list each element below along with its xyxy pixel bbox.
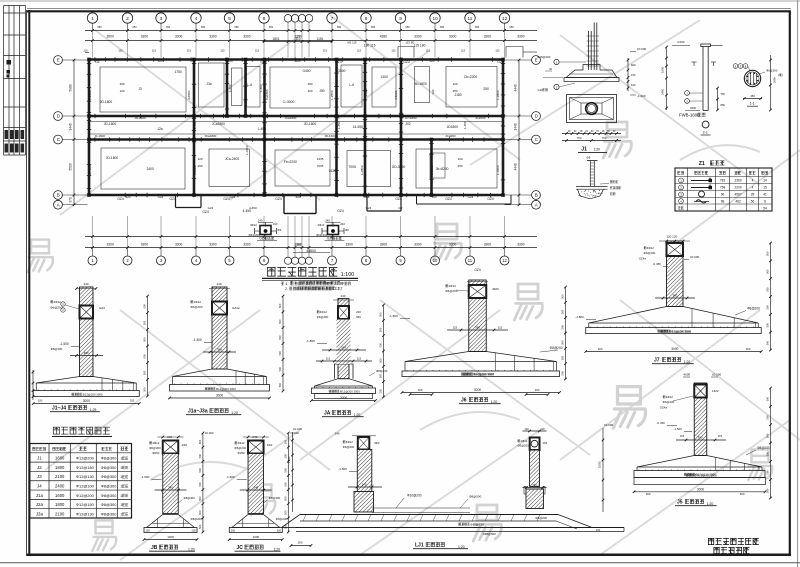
svg-text:-1.800: -1.800	[306, 339, 315, 343]
svg-text:1600: 1600	[55, 456, 65, 461]
svg-text:115: 115	[187, 49, 192, 53]
svg-text:500: 500	[198, 468, 202, 473]
svg-text:500: 500	[198, 482, 202, 487]
svg-text:650: 650	[132, 26, 137, 29]
svg-text:-1.500: -1.500	[141, 475, 150, 479]
svg-text:650: 650	[166, 26, 171, 29]
svg-text:115: 115	[391, 49, 396, 53]
svg-text:3000: 3000	[216, 394, 223, 398]
svg-text:1750: 1750	[174, 70, 182, 74]
svg-text:3300: 3300	[345, 243, 353, 247]
svg-text:Jb=8200: Jb=8200	[436, 167, 449, 171]
svg-text:3300: 3300	[106, 243, 114, 247]
svg-text:300: 300	[535, 388, 540, 392]
svg-text:120: 120	[431, 89, 435, 94]
svg-text:1-300: 1-300	[259, 84, 263, 92]
svg-text:624: 624	[296, 195, 301, 199]
svg-text:115: 115	[718, 434, 723, 438]
svg-text:4Φ12: 4Φ12	[317, 223, 324, 227]
svg-text:1600: 1600	[661, 66, 665, 73]
svg-text:100: 100	[130, 399, 135, 403]
svg-text:G24: G24	[366, 206, 372, 210]
svg-text:240: 240	[341, 346, 346, 350]
svg-text:500: 500	[284, 496, 288, 501]
svg-text:J3: J3	[37, 474, 42, 479]
svg-text:4600: 4600	[492, 287, 499, 291]
svg-text:100: 100	[631, 83, 636, 87]
svg-text:650: 650	[337, 26, 342, 29]
svg-text:300: 300	[598, 347, 603, 351]
svg-text:1402: 1402	[712, 389, 719, 393]
svg-text:500: 500	[278, 382, 282, 387]
svg-text:500: 500	[766, 322, 770, 327]
svg-text:J2a: J2a	[157, 127, 162, 131]
svg-text:650: 650	[371, 26, 376, 29]
svg-text:240: 240	[335, 432, 340, 436]
svg-text:GZ: GZ	[95, 60, 100, 64]
svg-text:115: 115	[326, 357, 331, 361]
svg-text:115: 115	[426, 49, 431, 53]
svg-text:110: 110	[295, 37, 300, 41]
svg-text:Φ250: Φ250	[152, 451, 160, 455]
svg-text:GZ4: GZ4	[275, 197, 282, 201]
svg-text:M=1800: M=1800	[415, 82, 427, 86]
svg-text:Φ12@130: Φ12@130	[76, 511, 95, 516]
svg-text:360: 360	[84, 351, 89, 355]
svg-text:650: 650	[509, 26, 514, 29]
svg-text:A: A	[57, 202, 60, 207]
svg-text:Φ8@500: Φ8@500	[469, 495, 481, 499]
svg-text:624: 624	[126, 195, 131, 199]
svg-text:624: 624	[228, 59, 233, 63]
svg-text:-1.500: -1.500	[674, 427, 683, 431]
svg-text:JB: JB	[151, 545, 158, 551]
svg-text:Φ8@300: Φ8@300	[101, 474, 118, 479]
svg-text:GD-3600: GD-3600	[392, 165, 406, 169]
svg-text:4: 4	[752, 186, 754, 190]
svg-text:9: 9	[399, 16, 402, 21]
svg-text:500: 500	[766, 396, 770, 401]
svg-text:4Φ12: 4Φ12	[346, 440, 354, 444]
svg-text:Φ10@200: Φ10@200	[407, 494, 422, 498]
svg-text:Φ6@200: Φ6@200	[50, 306, 62, 310]
svg-text:1801: 1801	[273, 37, 280, 41]
svg-text:GZ4: GZ4	[169, 197, 176, 201]
svg-text:500: 500	[379, 389, 383, 394]
svg-text:1-2800: 1-2800	[496, 90, 500, 100]
svg-text:3300: 3300	[243, 35, 251, 39]
svg-text:4Φ2: 4Φ2	[374, 441, 380, 445]
svg-text:240: 240	[532, 483, 537, 487]
svg-text:3000: 3000	[83, 399, 90, 403]
svg-text:Φ8@300: Φ8@300	[101, 456, 118, 461]
svg-text:500: 500	[278, 303, 282, 308]
svg-text:4Φ2: 4Φ2	[267, 443, 273, 447]
svg-text:96: 96	[721, 193, 725, 197]
svg-text:Φ12@200 3000: Φ12@200 3000	[340, 389, 360, 393]
svg-text:1: 1	[120, 484, 122, 488]
svg-text:G24: G24	[208, 206, 214, 210]
svg-text:3000: 3000	[697, 487, 704, 491]
svg-text:Φ6@200: Φ6@200	[234, 446, 246, 450]
svg-text:Φ8@200: Φ8@200	[51, 347, 63, 351]
svg-text:4Φ12: 4Φ12	[238, 441, 246, 445]
svg-text:GZ4a: GZ4a	[639, 257, 647, 261]
svg-text:±0.000: ±0.000	[290, 431, 299, 435]
svg-text:2400: 2400	[661, 88, 665, 95]
svg-text:J3: J3	[138, 87, 142, 91]
svg-text:115 180: 115 180	[414, 44, 426, 48]
svg-text:2200: 2200	[735, 186, 742, 190]
svg-text:500: 500	[284, 510, 288, 515]
svg-text:Φ12@100 3000: Φ12@100 3000	[669, 329, 691, 333]
svg-text:L7.2: L7.2	[336, 287, 343, 291]
svg-text:54: 54	[763, 206, 767, 210]
svg-text:Φ12@200: Φ12@200	[76, 493, 95, 498]
svg-text:Φ8@200: Φ8@200	[535, 516, 547, 520]
svg-text:56: 56	[751, 199, 755, 203]
svg-text:500: 500	[766, 287, 770, 292]
svg-text:-1.800: -1.800	[575, 315, 584, 319]
svg-text:650: 650	[405, 26, 410, 29]
svg-text:500: 500	[561, 294, 565, 299]
svg-text:650: 650	[440, 26, 445, 29]
svg-text:4-450: 4-450	[249, 206, 257, 210]
svg-text:Φ12@200 3000: Φ12@200 3000	[83, 392, 103, 396]
svg-text:G24: G24	[468, 195, 474, 199]
svg-text:Φ8@300: Φ8@300	[101, 502, 118, 507]
svg-text:1: 1	[120, 503, 122, 507]
svg-text:Φ250: Φ250	[238, 451, 246, 455]
svg-text:C=3000: C=3000	[283, 100, 295, 104]
svg-text:-1.500: -1.500	[338, 467, 347, 471]
svg-text:FWB-1600: FWB-1600	[679, 113, 700, 118]
svg-text:1: 1	[120, 475, 122, 479]
svg-text:115 M2: 115 M2	[405, 41, 415, 45]
svg-text:±0.000: ±0.000	[604, 423, 613, 427]
svg-text:J50: J50	[319, 89, 324, 93]
svg-text:12: 12	[502, 258, 507, 263]
svg-text:300: 300	[746, 347, 751, 351]
svg-text:J3a: J3a	[206, 82, 211, 86]
svg-text:4Φ12: 4Φ12	[54, 300, 62, 304]
svg-text:JD-1600: JD-1600	[134, 116, 146, 120]
svg-text:4380: 4380	[380, 35, 388, 39]
svg-text:-0.450: -0.450	[653, 262, 662, 266]
svg-text:2.: 2.	[294, 287, 297, 291]
svg-text:240: 240	[254, 486, 259, 490]
svg-text:GZ3: GZ3	[335, 60, 342, 64]
svg-text:120: 120	[540, 427, 545, 431]
svg-text:360: 360	[672, 294, 677, 298]
svg-text:3300: 3300	[484, 243, 492, 247]
svg-text:4: 4	[752, 179, 754, 183]
svg-text:115: 115	[323, 49, 328, 53]
svg-text:500: 500	[561, 309, 565, 314]
svg-text:Φ6: Φ6	[277, 228, 281, 232]
svg-text:3300: 3300	[517, 35, 525, 39]
svg-text:-1.500: -1.500	[226, 475, 235, 479]
svg-text::1.: :1.	[285, 282, 289, 286]
svg-text:500: 500	[143, 370, 147, 375]
svg-text:500: 500	[766, 415, 770, 420]
svg-text:Cb=2200: Cb=2200	[464, 75, 478, 79]
svg-text:4Φ2: 4Φ2	[182, 443, 188, 447]
svg-text:750: 750	[602, 136, 607, 140]
svg-text:500: 500	[766, 451, 770, 456]
svg-text:GZ4: GZ4	[337, 209, 344, 213]
svg-text:3: 3	[160, 16, 163, 21]
svg-text:±0.000: ±0.000	[205, 431, 214, 435]
svg-text:624: 624	[296, 59, 301, 63]
svg-text:8: 8	[365, 16, 368, 21]
svg-text:624: 624	[432, 195, 437, 199]
svg-text:J3a: J3a	[36, 511, 44, 516]
svg-text:-1.800: -1.800	[389, 314, 398, 318]
svg-text:5980: 5980	[69, 84, 73, 91]
svg-text:14: 14	[763, 179, 767, 183]
svg-text:±0.000: ±0.000	[690, 255, 699, 259]
svg-text:Φ8@200: Φ8@200	[757, 446, 770, 450]
svg-text:Φ6@200: Φ6@200	[445, 289, 457, 293]
svg-text:500: 500	[766, 488, 770, 493]
svg-text:J-4300: J-4300	[430, 165, 434, 175]
svg-text:J2a: J2a	[36, 502, 44, 507]
svg-text:7005: 7005	[317, 164, 324, 168]
svg-text:1435: 1435	[317, 157, 324, 161]
svg-text:A: A	[535, 202, 538, 207]
svg-text:Φ8@300: Φ8@300	[101, 483, 118, 488]
svg-text:250: 250	[483, 87, 489, 91]
svg-text:624: 624	[430, 59, 435, 63]
svg-text:2100: 2100	[55, 511, 65, 516]
svg-text:J5: J5	[677, 500, 683, 506]
svg-text:500: 500	[284, 439, 288, 444]
svg-text:GZ4: GZ4	[487, 197, 494, 201]
svg-text:Φ8@300: Φ8@300	[184, 496, 196, 500]
svg-text:J-2800: J-2800	[193, 165, 197, 175]
svg-text:GZ4: GZ4	[395, 197, 402, 201]
svg-text:120: 120	[453, 82, 458, 86]
svg-text:3000: 3000	[340, 396, 347, 400]
svg-text:3300: 3300	[141, 243, 149, 247]
svg-text:240: 240	[84, 282, 89, 286]
svg-text:J2: J2	[37, 465, 42, 470]
svg-text:JD-1600: JD-1600	[106, 156, 119, 160]
svg-text:4Φ12: 4Φ12	[320, 310, 328, 314]
svg-text:46800: 46800	[306, 249, 316, 253]
svg-text:G24: G24	[158, 195, 164, 199]
svg-text:Φ12@200: Φ12@200	[76, 456, 95, 461]
svg-text:4.600: 4.600	[677, 40, 685, 44]
svg-text:758: 758	[720, 186, 726, 190]
svg-text:100: 100	[38, 399, 43, 403]
svg-text:250: 250	[453, 89, 458, 93]
svg-text:500: 500	[766, 470, 770, 475]
svg-text:3000: 3000	[474, 388, 481, 392]
svg-text:160: 160	[596, 528, 601, 532]
svg-text:GZ4: GZ4	[445, 197, 452, 201]
svg-text:3300: 3300	[414, 35, 422, 39]
svg-text:J1a~J3a: J1a~J3a	[188, 409, 208, 415]
svg-text:Φ12@100: Φ12@100	[76, 483, 95, 488]
svg-text:4Φ12: 4Φ12	[250, 223, 257, 227]
svg-text:300: 300	[646, 492, 651, 496]
svg-text:750: 750	[721, 92, 726, 96]
svg-text:±0.000: ±0.000	[712, 373, 721, 377]
svg-text:1-450: 1-450	[463, 121, 467, 129]
svg-text:JCa1800: JCa1800	[284, 116, 296, 120]
svg-text:1-450: 1-450	[258, 127, 267, 131]
svg-text:115: 115	[255, 49, 260, 53]
svg-text:Φ8@200: Φ8@200	[276, 517, 288, 521]
svg-text:1300: 1300	[380, 75, 388, 79]
svg-text:500: 500	[766, 340, 770, 345]
svg-text:3300: 3300	[484, 35, 492, 39]
svg-text:1-1: 1-1	[750, 102, 755, 106]
svg-text:JCa1800: JCa1800	[204, 134, 216, 138]
svg-text:J1~J4: J1~J4	[52, 406, 66, 412]
svg-text:500: 500	[278, 351, 282, 356]
svg-text:M2 115: M2 115	[347, 41, 357, 45]
svg-text:Φ6@200: Φ6@200	[149, 446, 161, 450]
svg-text:250: 250	[458, 164, 463, 168]
svg-text:JD-1600: JD-1600	[104, 122, 117, 126]
svg-text:500: 500	[198, 453, 202, 458]
svg-text:240: 240	[217, 282, 222, 286]
svg-text:115: 115	[461, 49, 466, 53]
svg-text:J1: J1	[581, 147, 587, 153]
svg-text:162: 162	[543, 441, 548, 445]
svg-text:10: 10	[433, 16, 439, 21]
svg-text:500: 500	[379, 312, 383, 317]
svg-text::1.: :1.	[293, 281, 297, 285]
svg-text:7: 7	[331, 16, 334, 21]
svg-text:12: 12	[502, 16, 508, 21]
svg-text:GZ3: GZ3	[260, 60, 267, 64]
svg-text:3000: 3000	[671, 347, 678, 351]
svg-text:1: 1	[120, 457, 122, 461]
svg-text:2400: 2400	[146, 167, 154, 171]
svg-text:3300: 3300	[209, 243, 217, 247]
svg-text:500: 500	[379, 358, 383, 363]
svg-text:250: 250	[198, 164, 203, 168]
svg-text:Φ6@200: Φ6@200	[663, 400, 675, 404]
svg-text:Φ12@110 3000: Φ12@110 3000	[473, 372, 494, 376]
svg-text:L-6: L-6	[349, 83, 354, 87]
svg-text:1600: 1600	[55, 493, 65, 498]
svg-text:4Φ12: 4Φ12	[194, 300, 202, 304]
svg-text:JCa600: JCa600	[445, 134, 456, 138]
svg-text:Φ8: Φ8	[586, 156, 590, 160]
svg-text:650: 650	[475, 26, 480, 29]
svg-text:3300: 3300	[449, 243, 457, 247]
svg-text:1-4200: 1-4200	[496, 165, 500, 175]
svg-text:G24: G24	[364, 195, 370, 199]
svg-text:15: 15	[763, 186, 767, 190]
svg-text:Φ8@300: Φ8@300	[269, 496, 281, 500]
svg-text:120: 120	[198, 157, 203, 161]
svg-text:-0.450: -0.450	[657, 421, 666, 425]
svg-text:115: 115	[453, 326, 458, 330]
svg-text:4567: 4567	[735, 193, 742, 197]
svg-text:JD-1600: JD-1600	[304, 122, 317, 126]
svg-text:4Φ12: 4Φ12	[647, 246, 655, 250]
svg-text:500: 500	[766, 305, 770, 310]
svg-text:2.: 2.	[285, 287, 288, 291]
svg-text:115: 115	[498, 326, 503, 330]
svg-text:300: 300	[418, 388, 423, 392]
svg-text:±0.000: ±0.000	[293, 427, 302, 431]
svg-text:500: 500	[561, 325, 565, 330]
svg-text:250: 250	[120, 82, 125, 86]
svg-text:GZ4a: GZ4a	[232, 306, 240, 310]
svg-text:500: 500	[379, 343, 383, 348]
svg-text:): )	[782, 73, 783, 77]
svg-text:LJ1: LJ1	[415, 543, 424, 549]
svg-text:500: 500	[766, 269, 770, 274]
svg-text:115: 115	[118, 49, 123, 53]
svg-text:98: 98	[721, 199, 725, 203]
svg-text:3300: 3300	[141, 35, 149, 39]
svg-text:4Φ12: 4Φ12	[449, 284, 457, 288]
svg-text:4440: 4440	[514, 84, 518, 91]
svg-text:GZ3: GZ3	[497, 60, 504, 64]
svg-text:1:30: 1:30	[593, 148, 600, 152]
svg-text:Φ6@200: Φ6@200	[644, 251, 656, 255]
svg-text:J6: J6	[461, 398, 467, 404]
svg-text:Φ6: Φ6	[345, 228, 349, 232]
svg-text:JC2000: JC2000	[475, 116, 486, 120]
svg-text:1-450: 1-450	[193, 121, 197, 129]
svg-text:J1: J1	[37, 456, 42, 461]
svg-text:2100: 2100	[55, 474, 65, 479]
svg-text:300: 300	[740, 492, 745, 496]
svg-text:500: 500	[284, 482, 288, 487]
svg-text:180: 180	[296, 243, 301, 247]
svg-text:240: 240	[325, 219, 330, 223]
svg-text:462: 462	[735, 199, 741, 203]
svg-text:500: 500	[561, 355, 565, 360]
svg-text:450: 450	[750, 94, 755, 98]
svg-text:JD-1600: JD-1600	[324, 134, 336, 138]
svg-text:1: 1	[120, 494, 122, 498]
svg-text:500: 500	[198, 439, 202, 444]
svg-text:D: D	[57, 114, 60, 119]
svg-text:7005: 7005	[348, 165, 356, 169]
svg-text:240: 240	[356, 310, 361, 314]
svg-text:Φ16@200: Φ16@200	[537, 55, 551, 59]
svg-text:850: 850	[721, 103, 726, 107]
svg-text:500: 500	[143, 337, 147, 342]
svg-text:2: 2	[126, 16, 129, 21]
svg-text:500: 500	[379, 373, 383, 378]
svg-text:600: 600	[631, 63, 636, 67]
svg-text:500: 500	[198, 524, 202, 529]
svg-text:3300: 3300	[175, 243, 183, 247]
svg-text:m: m	[341, 281, 344, 285]
svg-text:J-300: J-300	[228, 84, 232, 92]
svg-text:Φ6@200: Φ6@200	[343, 445, 355, 449]
svg-text:750: 750	[577, 136, 582, 140]
svg-text:GZ4: GZ4	[474, 268, 480, 272]
svg-text:3300: 3300	[449, 35, 457, 39]
svg-text:1-2800: 1-2800	[360, 165, 364, 175]
svg-text:4: 4	[195, 16, 198, 21]
svg-text:6: 6	[263, 16, 266, 21]
svg-text:360: 360	[356, 315, 361, 319]
svg-text:1Φ8@500: 1Φ8@500	[483, 532, 497, 536]
